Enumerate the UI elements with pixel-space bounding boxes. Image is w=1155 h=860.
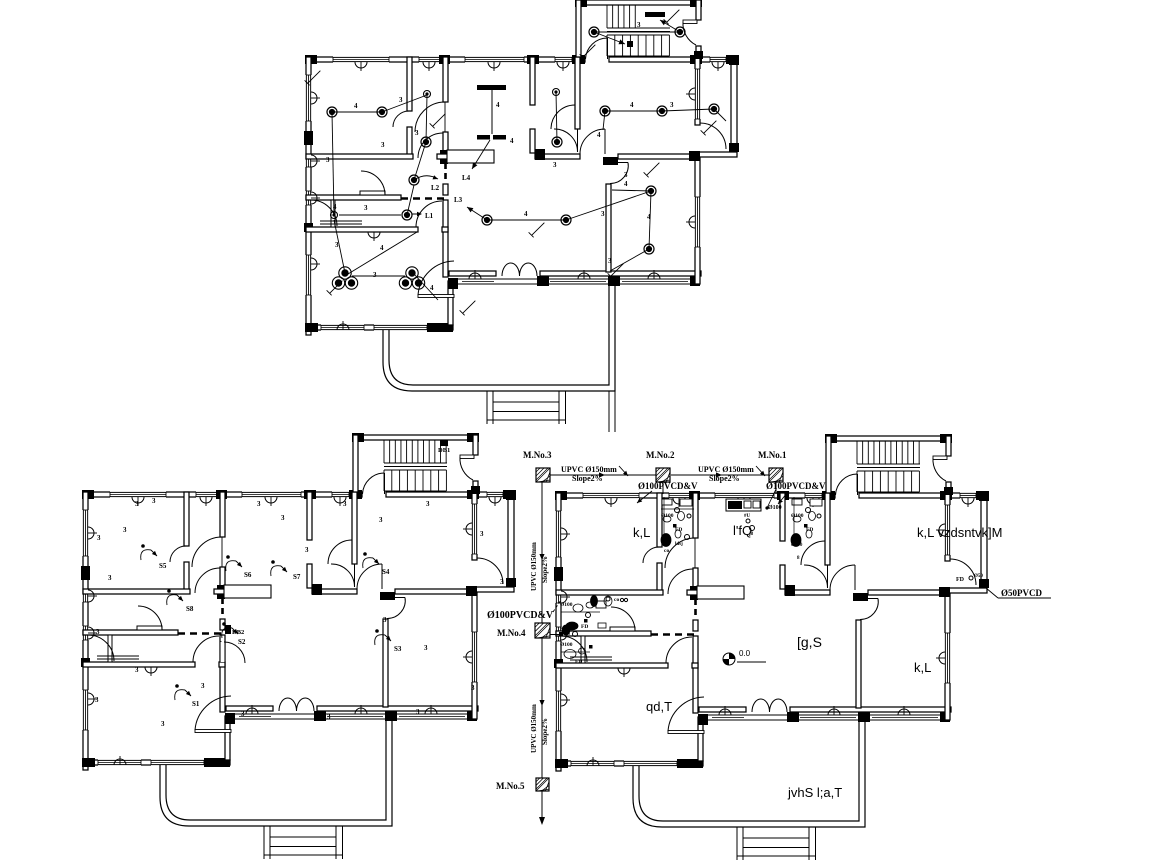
electrical plan: right verandah outer wall [731, 57, 737, 151]
svg-text:3: 3 [327, 713, 331, 721]
plumbing plan: door bedroom1 in V1 [665, 538, 695, 568]
electrical plan: R5 left wall V4 [606, 184, 611, 272]
switch plan: left wall windows [82, 510, 88, 556]
svg-text:3: 3 [326, 156, 330, 164]
switch plan: porch inner outline [166, 719, 386, 820]
svg-text:3: 3 [335, 241, 339, 249]
switch plan: door R5 in V4 [395, 597, 405, 599]
svg-text:S8: S8 [186, 605, 194, 613]
svg-text:3: 3 [379, 516, 383, 524]
switch plan: door bath V2 [328, 540, 352, 564]
plumbing external: manhole M.No.4 [535, 623, 550, 638]
plumbing plan: shelf lines [610, 627, 635, 631]
switch plan: wall H2 at DB2 with dashed opening [83, 630, 178, 635]
plumbing plan: interior wall V3 below stair [825, 493, 830, 565]
electrical plan: interior wall V1 lower [443, 200, 448, 277]
svg-text:k,L: k,L [633, 525, 650, 540]
svg-text:4: 4 [354, 102, 358, 110]
plumbing plan: veranda sill line with windows [699, 714, 950, 716]
electrical plan: stair treads upper flight [606, 5, 608, 28]
svg-text:S1: S1 [192, 700, 200, 708]
svg-text:3: 3 [241, 710, 245, 718]
plumbing plan: bottom wall windows [571, 760, 614, 766]
switch plan: DB1 marker in staircase [440, 440, 448, 446]
plumbing plan: door in H1 [668, 569, 693, 594]
switch plan: door small WC [88, 635, 114, 661]
plumbing plan: interior wall V2 [780, 493, 785, 541]
plumbing plan: bedroom2 right wall (R4) [945, 493, 950, 561]
electrical plan: wall H2 at DB2 with dashed opening [306, 195, 401, 200]
electrical plan: V1 counter junction block [440, 150, 448, 164]
svg-text:qd,T: qd,T [646, 699, 672, 714]
plumbing external: manhole M.No.1 [769, 468, 783, 482]
electrical plan: interior wall V3 below stair [575, 57, 580, 129]
svg-text:4: 4 [630, 101, 634, 109]
switch plan: wall bumps [132, 497, 144, 503]
plumbing plan: door R5 in V4 [868, 598, 878, 600]
switch plan: door from hall to staircase [384, 473, 386, 494]
switch plan: staircase left wall [353, 435, 358, 492]
svg-text:Ø100: Ø100 [560, 642, 573, 648]
plumbing plan: door small WC [561, 636, 587, 662]
switch plan: interior wall V1 lower [220, 635, 225, 712]
svg-text:3: 3 [305, 546, 309, 554]
plumbing plan: top wall column blocks [555, 491, 567, 500]
svg-text:FD: FD [806, 527, 813, 533]
svg-text:3: 3 [500, 578, 504, 586]
electrical plan: DB box in staircase [645, 12, 665, 17]
plumbing plan: door from hall to staircase [857, 474, 859, 495]
switch plan: left wall column blocks [81, 566, 90, 580]
plumbing plan: bottom wall column blocks [555, 759, 568, 768]
switch plan: right section dividing wall [312, 589, 357, 594]
electrical plan: ceiling lights [327, 107, 337, 117]
switch plan: door to bottom bedroom [195, 730, 231, 733]
plumbing external: manhole M.No.2 [656, 468, 670, 482]
plumbing plan: right verandah outer wall [981, 493, 987, 587]
plumbing plan: left wall column blocks [554, 567, 563, 581]
switch plan: bottom wall of left bedroom [83, 760, 230, 765]
switch plan: staircase top wall [353, 435, 478, 440]
plumbing plan: wall H3 top of bottom bedroom [556, 663, 668, 668]
plumbing plan: porch steps [736, 827, 738, 860]
svg-text:4: 4 [624, 180, 628, 188]
plumbing plan: outer top wall left segment with door gap to staircase [556, 493, 835, 498]
plumbing plan: door bath V2 [801, 541, 825, 565]
plumbing external: vertical sewer below M5 [541, 791, 543, 818]
svg-text:S5: S5 [159, 562, 167, 570]
electrical plan: staircase exterior door leaf and arc [683, 20, 697, 24]
electrical plan: interior wall V1 mid [443, 184, 448, 195]
switch plan: R5 left wall V4 [383, 619, 388, 707]
svg-text:l'fQ: l'fQ [733, 523, 752, 538]
switch plan: door in H1 [195, 568, 220, 593]
plumbing: benchmark 0.0 symbol [723, 653, 735, 665]
svg-text:3: 3 [201, 682, 205, 690]
svg-text:3: 3 [471, 684, 475, 692]
svg-text:[g,S: [g,S [797, 634, 822, 650]
switch plan: staircase exterior door leaf and arc [460, 455, 474, 459]
electrical plan: wall H1 under bedroom1 [306, 154, 413, 159]
electrical plan: outer left wall [306, 57, 311, 335]
electrical plan: porch inner outline [389, 284, 609, 385]
svg-text:Slope2%: Slope2% [709, 474, 740, 483]
svg-text:M.No.2: M.No.2 [646, 450, 675, 460]
plumbing external: sewer line M3-M2 [550, 474, 656, 476]
plumbing plan: veranda double door (double-action leaves) [752, 699, 770, 712]
electrical plan: interior wall V0 (bath partition) [407, 57, 412, 111]
svg-text:3: 3 [415, 129, 419, 137]
electrical plan: wiring [332, 111, 382, 113]
switch plan: wall H3 top of bottom bedroom [83, 662, 195, 667]
plumbing plan: top wall windows [583, 492, 639, 498]
svg-text:3: 3 [608, 257, 612, 265]
svg-text:Ø100: Ø100 [791, 513, 804, 519]
svg-text:3: 3 [97, 534, 101, 542]
svg-text:co: co [614, 597, 619, 603]
plumbing plan: door bedroom2 (R4) [854, 565, 856, 590]
svg-text:3: 3 [624, 171, 628, 179]
plumbing external: vertical sewer M3-M4 [541, 482, 543, 623]
svg-text:3: 3 [161, 720, 165, 728]
electrical plan: door to bottom bedroom [418, 295, 454, 298]
plumbing plan: door corridor V3 [827, 565, 829, 588]
switch plan: dashed opening in V1 [221, 598, 224, 618]
svg-text:4: 4 [380, 244, 384, 252]
switch plan: bottom wall windows [98, 759, 141, 765]
plumbing plan: interior wall V0 (bath partition) [657, 493, 662, 547]
switch plan: porch steps [263, 826, 265, 859]
svg-text:L1: L1 [425, 212, 434, 220]
plumbing plan: left wall windows [555, 511, 561, 557]
svg-text:Ø100PVCD&V: Ø100PVCD&V [487, 610, 554, 621]
switch plan: stair rails [384, 462, 447, 464]
plumbing plan: hall south wall [699, 707, 746, 712]
plumbing plan: R5 left wall V4 [856, 620, 861, 708]
electrical plan: right section dividing wall [535, 154, 580, 159]
svg-text:M.No.5: M.No.5 [496, 781, 525, 791]
svg-text:FD: FD [581, 624, 588, 630]
electrical plan: veranda columns [448, 278, 458, 289]
electrical plan: left wall column blocks [304, 131, 313, 145]
electrical plan: interior wall V1 upper [443, 57, 448, 102]
switch plan: outer top wall left segment with door gap to staircase [83, 492, 362, 497]
electrical plan: ceiling fan symbol [477, 85, 506, 90]
switch plan: interior wall V3 below stair [352, 492, 357, 564]
svg-text:3: 3 [364, 204, 368, 212]
plumbing plan: lower right wall window [944, 633, 950, 683]
plumbing external: M4 stub to wall [550, 634, 561, 636]
switch plan: wall H1 under bedroom1 [83, 589, 190, 594]
electrical plan: door R4 to verandah [700, 123, 726, 149]
plumbing plan: wall H1 under bedroom1 [556, 590, 663, 595]
electrical plan: stair treads lower flight [606, 35, 608, 56]
plumbing external: vertical sewer M4-M5 [541, 638, 543, 778]
switch plan: veranda sill line with windows [226, 713, 477, 715]
switch plan: veranda columns [225, 713, 235, 724]
plumbing plan: door in H3 [666, 637, 692, 663]
svg-text:FD: FD [675, 527, 682, 533]
svg-text:jvhS l;a,T: jvhS l;a,T [787, 785, 842, 800]
switch plan: bottom wall column blocks [82, 758, 95, 767]
svg-text:4: 4 [524, 210, 528, 218]
plumbing plan: wall H2 at DB2 with dashed opening [556, 631, 651, 636]
electrical plan: door bath V2 [551, 105, 575, 129]
plumbing external: manhole M.No.5 [536, 778, 549, 791]
svg-text:L3: L3 [454, 196, 463, 204]
svg-text:Ø100: Ø100 [560, 602, 573, 608]
svg-text:3: 3 [257, 500, 261, 508]
electrical plan: curly wire from light to V1 wall [414, 176, 438, 180]
electrical plan: top wall windows [333, 56, 389, 62]
electrical plan: door small WC [311, 200, 337, 226]
electrical plan: wall bumps [355, 62, 367, 68]
svg-text:4: 4 [510, 137, 514, 145]
svg-text:L2: L2 [431, 184, 440, 192]
electrical plan: door bath V0 [393, 111, 409, 127]
svg-text:3: 3 [399, 96, 403, 104]
svg-text:FD: FD [956, 577, 965, 583]
svg-text:S6: S6 [244, 571, 252, 579]
svg-text:3: 3 [383, 616, 387, 624]
switch plan: right verandah outer wall [508, 492, 514, 586]
svg-text:UPVC Ø150mm: UPVC Ø150mm [530, 542, 538, 591]
svg-text:M.No.3: M.No.3 [523, 450, 552, 460]
plumbing plan: door WC in H2 [611, 607, 635, 631]
svg-text:3: 3 [601, 210, 605, 218]
plumbing plan: stair treads lower flight [856, 471, 858, 492]
svg-text:Slope2%: Slope2% [541, 556, 549, 583]
switch plan: lower right outer wall [472, 592, 477, 719]
electrical plan: interior wall V2 [530, 57, 535, 105]
svg-text:Ø100PVCD&V: Ø100PVCD&V [638, 481, 698, 491]
switch plan: shelf lines [137, 626, 162, 630]
svg-text:Ø100: Ø100 [791, 543, 803, 548]
svg-text:L4: L4 [462, 174, 471, 182]
svg-text:3: 3 [135, 666, 139, 674]
electrical plan: hall south wall [449, 271, 496, 276]
switch plan: WC partition [108, 635, 112, 662]
switch plan: top wall column blocks [82, 490, 94, 499]
electrical plan: stair rails [607, 27, 670, 29]
svg-text:3: 3 [281, 514, 285, 522]
plumbing plan: staircase left wall [826, 436, 831, 493]
plumbing plan: staircase top wall [826, 436, 951, 441]
svg-text:3: 3 [426, 500, 430, 508]
switch plan: porch outer outline [160, 719, 392, 826]
switch plan: interior wall V2 [307, 492, 312, 540]
svg-text:Ø100: Ø100 [768, 505, 782, 511]
electrical plan: porch steps [486, 391, 488, 424]
switch plan: bedroom2 right wall (R4) [472, 492, 477, 560]
plumbing external: manhole M.No.3 [536, 468, 550, 482]
electrical plan: left wall windows [305, 75, 311, 121]
svg-text:3: 3 [152, 497, 156, 505]
electrical plan: right step wall [695, 152, 737, 157]
svg-text:3: 3 [96, 628, 100, 636]
svg-text:3: 3 [424, 644, 428, 652]
electrical plan: door corridor V3 [577, 129, 579, 152]
plumbing plan: interior wall V1 lower [693, 636, 698, 713]
plumbing plan: staircase exterior door leaf and arc [933, 456, 947, 460]
svg-text:k,L vzdsntvk]M: k,L vzdsntvk]M [917, 525, 1002, 540]
svg-text:Slope2%: Slope2% [541, 718, 549, 745]
svg-text:Ø100PVCD&V: Ø100PVCD&V [766, 481, 826, 491]
plumbing: bath cluster right of M.No.1 fixtures [792, 499, 802, 505]
plumbing plan: lower right outer wall [945, 593, 950, 720]
switch plan: door R4 to verandah [477, 558, 503, 584]
svg-text:UPVC Ø150mm: UPVC Ø150mm [698, 465, 754, 474]
electrical plan: top wall column blocks [305, 55, 317, 64]
switch plan: staircase right wall [473, 435, 478, 455]
svg-text:Ø100: Ø100 [661, 513, 674, 519]
svg-text:3: 3 [373, 271, 377, 279]
plumbing plan: door to bottom bedroom [668, 731, 704, 734]
electrical plan: arrow from middle room light to door [412, 213, 421, 215]
plumbing plan: dashed opening in V1 [694, 599, 697, 619]
electrical plan: door bedroom2 (R4) [604, 129, 606, 154]
svg-text:S7: S7 [293, 573, 301, 581]
electrical plan: door WC in H2 [361, 171, 385, 195]
svg-text:3: 3 [480, 530, 484, 538]
plumbing plan: hall counter [697, 586, 744, 599]
plumbing plan: stair treads upper flight [856, 441, 858, 464]
plumbing plan: staircase right wall [946, 436, 951, 456]
svg-text:S4: S4 [382, 568, 390, 576]
electrical plan: shelf lines [360, 191, 385, 195]
svg-text:3: 3 [637, 21, 641, 29]
electrical plan: staircase left wall [576, 0, 581, 57]
svg-text:co: co [664, 548, 669, 554]
svg-text:4: 4 [597, 131, 601, 139]
switch plan: lower right wall window [471, 632, 477, 682]
electrical plan: bottom wall column blocks [305, 323, 318, 332]
svg-text:4: 4 [430, 284, 434, 292]
plumbing plan: V1 counter junction block [690, 586, 698, 600]
plumbing plan: step wall to veranda [698, 717, 703, 761]
svg-text:FD: FD [575, 659, 582, 665]
svg-text:Ø50PVCD: Ø50PVCD [1001, 588, 1042, 598]
electrical plan: veranda sill line with windows [449, 278, 700, 280]
svg-text:3: 3 [135, 500, 139, 508]
svg-text:3: 3 [108, 574, 112, 582]
switch plan: stair treads upper flight [383, 440, 385, 463]
plumbing plan: bottom wall of left bedroom [556, 761, 703, 766]
plumbing plan: porch outer outline [633, 720, 865, 827]
svg-text:#U: #U [744, 514, 751, 519]
plumbing plan: stair rails [857, 463, 920, 465]
electrical plan: lower right outer wall [695, 157, 700, 284]
switch plan: door WC in H2 [138, 606, 162, 630]
svg-text:ldsj: ldsj [675, 542, 683, 547]
electrical plan: triple light cluster right [406, 267, 418, 279]
electrical plan: door R5 in V4 [618, 162, 628, 164]
switch plan: interior wall V1 upper [220, 492, 225, 537]
svg-text:Ø50: Ø50 [974, 574, 983, 579]
svg-text:4: 4 [496, 101, 500, 109]
plumbing plan: outer left wall [556, 493, 561, 771]
svg-text:3: 3 [343, 500, 347, 508]
switch plan: door bedroom1 in V1 [192, 537, 222, 567]
switch plan: V1 counter junction block [217, 585, 225, 599]
svg-text:M.No.4: M.No.4 [497, 628, 526, 638]
svg-text:UPVC Ø150mm: UPVC Ø150mm [530, 704, 538, 753]
switch plan: interior wall V1 mid [220, 619, 225, 630]
svg-text:3: 3 [670, 101, 674, 109]
switch plan: hall south wall [226, 706, 273, 711]
svg-text:3: 3 [95, 696, 99, 704]
switch plan: door opening in V1 below DB2 with arc [221, 642, 225, 662]
electrical plan: outer top wall left segment with door gap to staircase [306, 57, 585, 62]
electrical plan: staircase top wall [576, 0, 701, 5]
plumbing plan: wall bumps [605, 498, 617, 504]
svg-text:Slope2%: Slope2% [572, 474, 603, 483]
electrical plan: door in H1 [418, 133, 443, 158]
electrical plan: small rings [424, 91, 431, 98]
svg-text:3: 3 [553, 161, 557, 169]
plumbing: kitchen counter [726, 499, 761, 511]
switch plan: door bedroom2 (R4) [381, 564, 383, 589]
switch plan: top wall windows [110, 491, 166, 497]
electrical plan: WC partition [331, 200, 335, 227]
plumbing plan: veranda columns [698, 714, 708, 725]
switch plan: veranda double door (double-action leaves) [279, 698, 297, 711]
svg-text:4: 4 [333, 203, 337, 211]
switch plan: door in H3 [193, 636, 219, 662]
electrical plan: door in H3 [416, 201, 442, 227]
electrical plan: veranda double door (double-action leaves) [502, 263, 520, 276]
svg-text:3: 3 [416, 708, 420, 716]
plumbing plan: door bath V0 [643, 547, 659, 563]
electrical plan: wall H3 top of bottom bedroom [306, 227, 418, 232]
switch plan: interior wall V0 (bath partition) [184, 492, 189, 546]
switch plan: door corridor V3 [354, 564, 356, 587]
svg-text:S3: S3 [394, 645, 402, 653]
plumbing plan: porch inner outline [639, 720, 859, 821]
plumbing external: stub into wall from M1 [775, 482, 777, 494]
electrical plan: hall counter [447, 150, 494, 163]
switch plan: hall counter [224, 585, 271, 598]
plumbing plan: WC partition [581, 636, 585, 663]
electrical plan: lower right wall window [694, 197, 700, 247]
switch plan: door bath V0 [170, 546, 186, 562]
svg-text:0.0: 0.0 [739, 649, 751, 658]
electrical plan: door from hall to staircase [607, 38, 609, 59]
plumbing: bath cluster top-middle fixtures [662, 499, 672, 505]
svg-text:4: 4 [647, 213, 651, 221]
electrical plan: porch outer outline [383, 284, 615, 391]
switch plan: outer left wall [83, 492, 88, 770]
electrical plan: drain line below porch [608, 391, 610, 432]
switch plan: stair treads lower flight [383, 470, 385, 491]
plumbing plan: door R4 to verandah [950, 559, 976, 585]
plumbing external: sewer line M2-M1 [671, 474, 769, 476]
plumbing plan: right step wall [945, 588, 987, 593]
electrical plan: staircase right wall [696, 0, 701, 20]
electrical plan: switch ticks [308, 71, 321, 84]
electrical plan: step wall to veranda [448, 281, 453, 325]
switch plan: right step wall [472, 587, 514, 592]
svg-text:UPVC Ø150mm: UPVC Ø150mm [561, 465, 617, 474]
electrical plan: bottom wall windows [321, 324, 364, 330]
electrical plan: triple light cluster left [339, 267, 351, 279]
svg-text:M.No.1: M.No.1 [758, 450, 787, 460]
svg-text:3: 3 [123, 526, 127, 534]
svg-text:k,L: k,L [914, 660, 931, 675]
electrical plan: bottom wall of left bedroom [306, 325, 453, 330]
svg-text:DB1: DB1 [438, 447, 450, 454]
svg-text:3: 3 [381, 141, 385, 149]
